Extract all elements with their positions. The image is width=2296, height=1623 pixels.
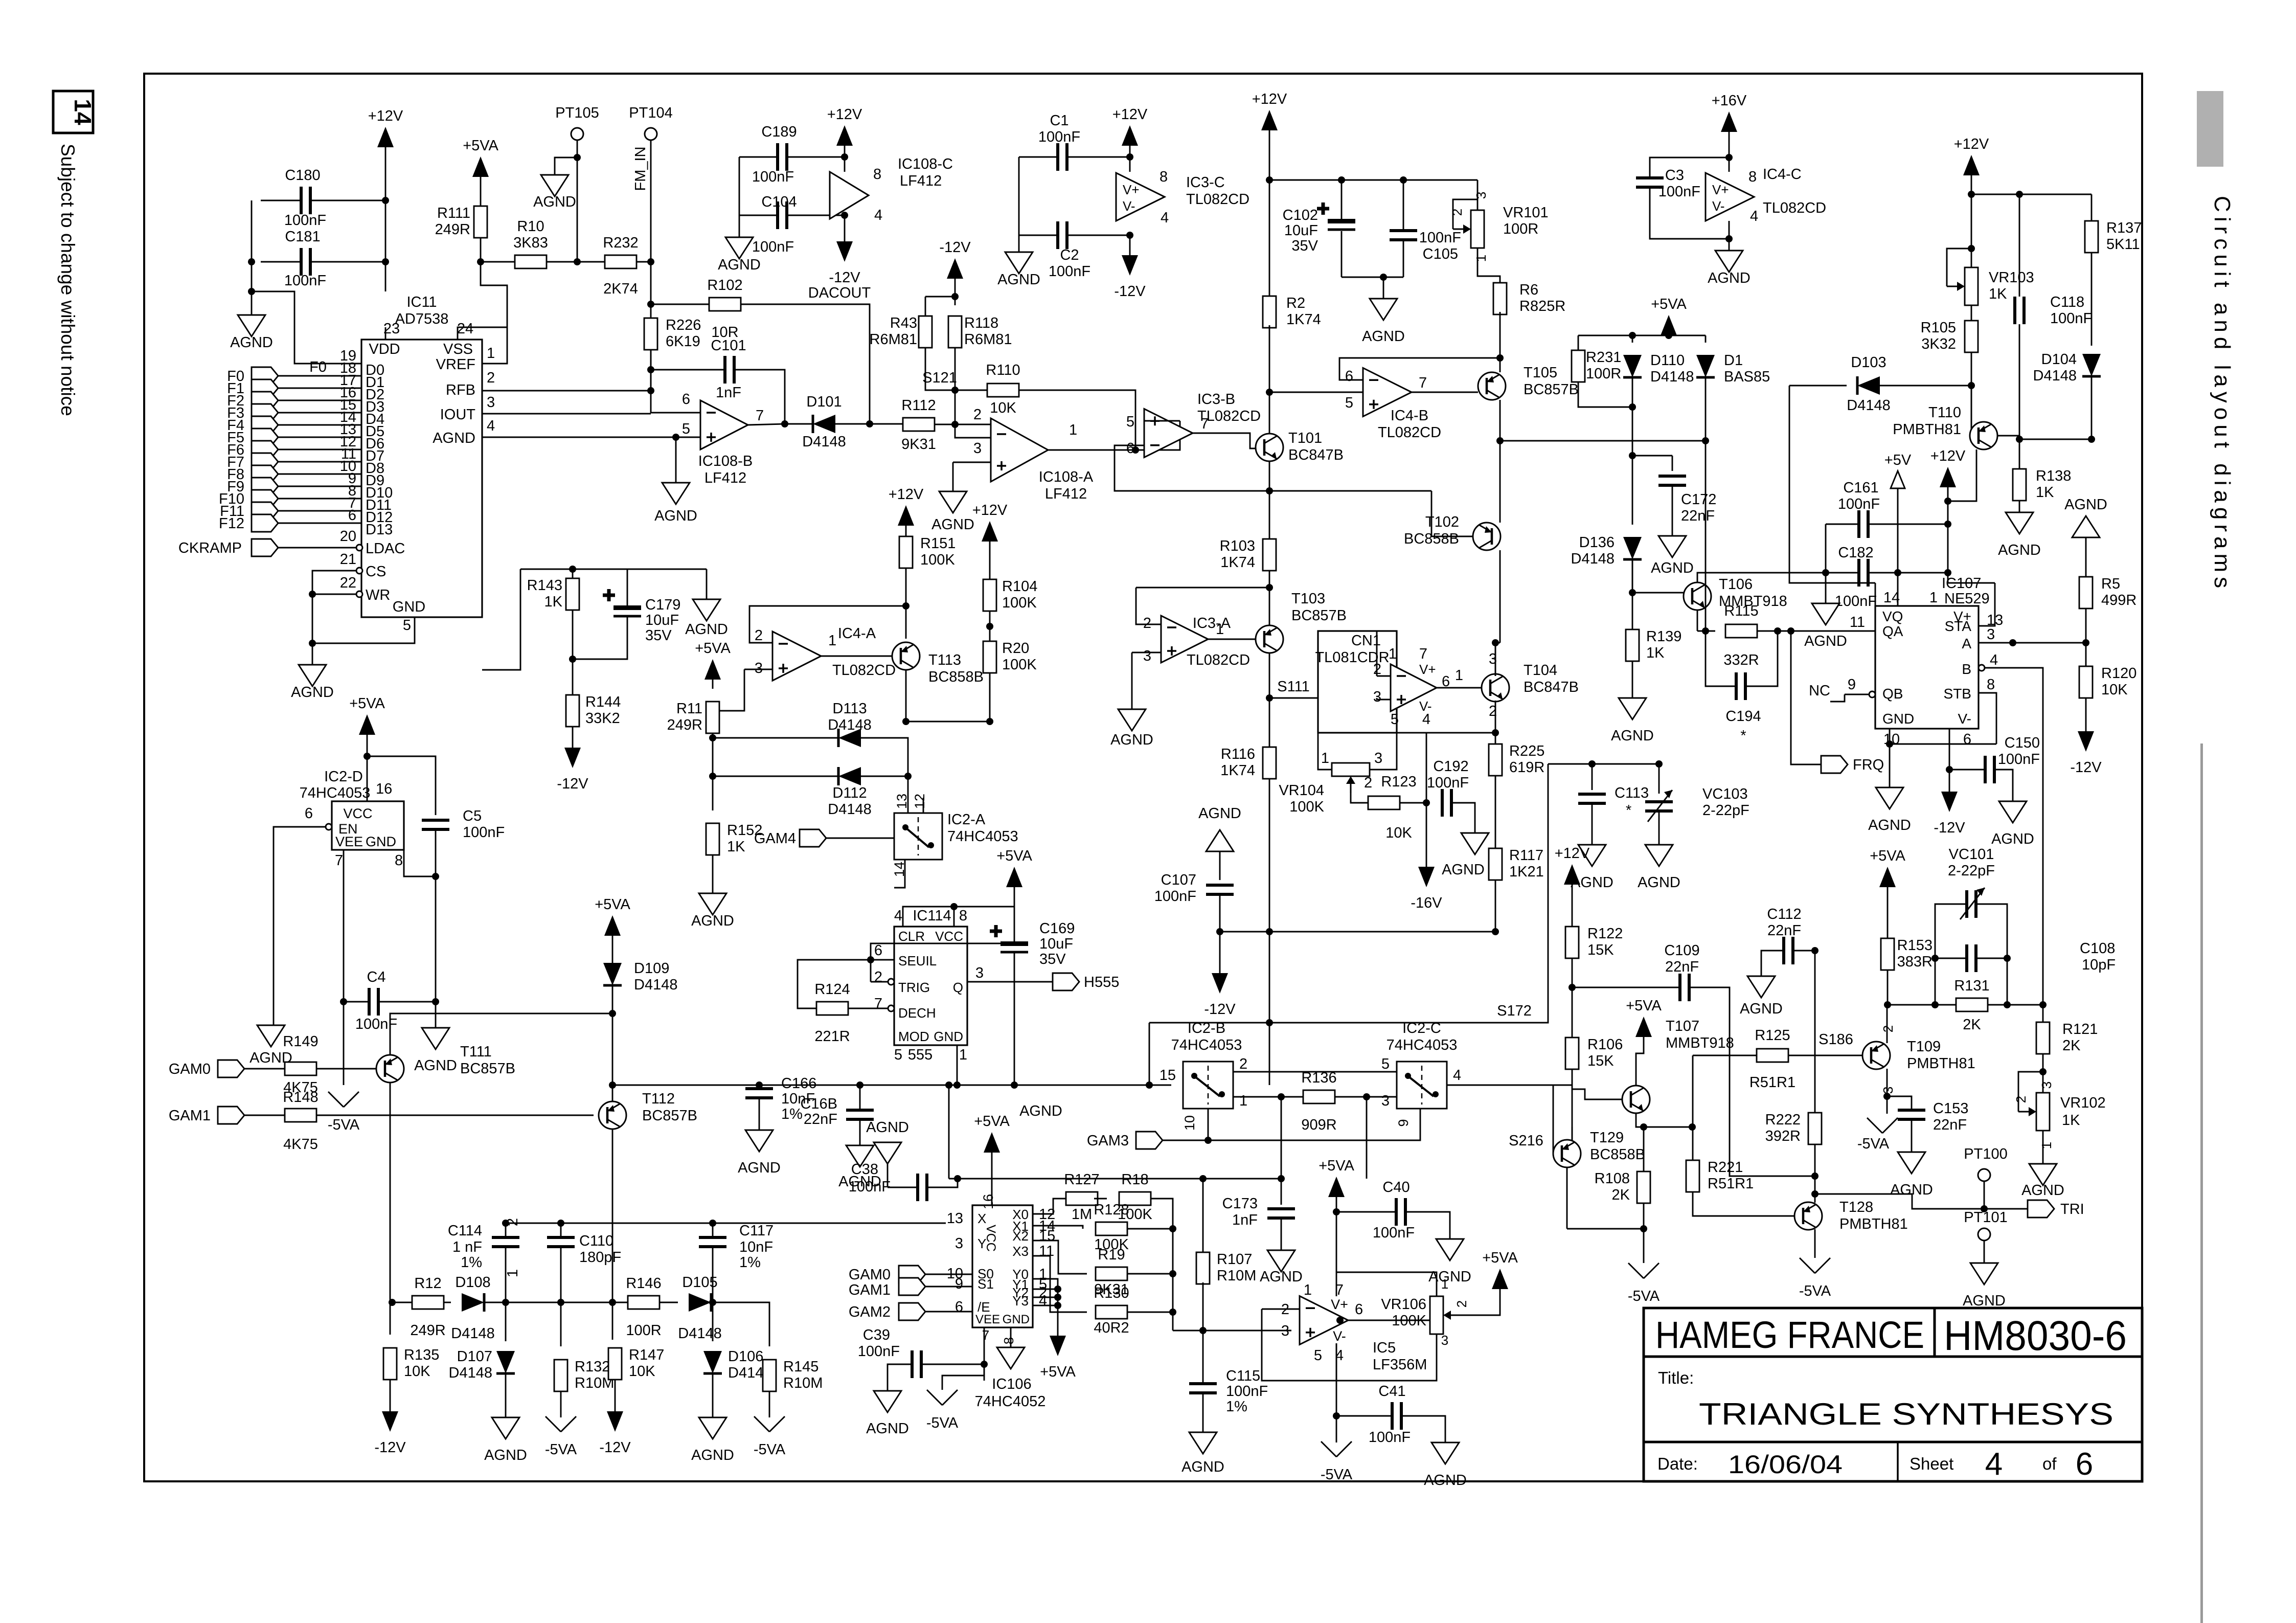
wire [1729, 132, 1730, 172]
ground AGND [2072, 516, 2100, 537]
wire [925, 296, 955, 298]
wire [1976, 958, 2007, 1005]
wire [367, 756, 436, 815]
svg-text:3: 3 [975, 965, 984, 981]
svg-text:100nF: 100nF [1154, 888, 1196, 905]
svg-text:V+: V+ [1331, 1297, 1348, 1312]
resistor R132 [554, 1360, 567, 1391]
junction [1886, 740, 1893, 748]
svg-text:249R: 249R [435, 221, 470, 238]
wire [507, 261, 516, 263]
resistor R110 [987, 384, 1019, 397]
capacitor C4 [369, 988, 378, 1016]
capacitor C117 [699, 1237, 726, 1247]
svg-text:IC114: IC114 [913, 908, 951, 924]
svg-text:PT104: PT104 [629, 105, 672, 121]
svg-text:D4148: D4148 [678, 1325, 721, 1342]
junction [1011, 1081, 1018, 1089]
svg-text:R122: R122 [1587, 926, 1623, 942]
svg-text:R232: R232 [603, 235, 638, 251]
wire [1208, 1109, 1209, 1140]
svg-text:+16V: +16V [1712, 93, 1747, 109]
svg-text:+5VA: +5VA [349, 695, 385, 712]
svg-text:33K2: 33K2 [585, 710, 620, 727]
wire [991, 1153, 993, 1205]
wire [1014, 887, 1015, 941]
svg-text:2: 2 [874, 969, 882, 985]
junction [647, 258, 654, 265]
wire [1412, 392, 1478, 393]
ground AGND [874, 1391, 901, 1412]
wire [1705, 335, 1707, 343]
wire [1477, 180, 1479, 210]
svg-text:S111: S111 [1277, 679, 1309, 695]
resistor R10 [515, 255, 547, 268]
node F2 [252, 392, 278, 409]
transistor T102 [1473, 523, 1501, 550]
svg-text:10K: 10K [1385, 825, 1412, 841]
wire [734, 370, 785, 424]
svg-text:AGND: AGND [484, 1447, 527, 1463]
svg-text:C189: C189 [761, 124, 797, 140]
svg-text:R120: R120 [2101, 665, 2136, 682]
svg-text:AGND: AGND [414, 1057, 457, 1074]
svg-text:CLR: CLR [898, 929, 925, 944]
ground AGND [874, 1142, 901, 1164]
wire [572, 569, 574, 578]
svg-text:AGND: AGND [1611, 728, 1654, 744]
svg-text:IC11: IC11 [406, 294, 437, 310]
wire [984, 1327, 985, 1364]
node CKRAMP [252, 539, 278, 556]
svg-text:+12V: +12V [889, 486, 924, 503]
wire [278, 424, 361, 426]
svg-text:7: 7 [874, 996, 882, 1012]
svg-text:R137: R137 [2106, 220, 2142, 236]
wire [482, 262, 651, 391]
wire [1632, 455, 1672, 457]
svg-text:R825R: R825R [1519, 298, 1565, 314]
wire [1845, 694, 1869, 695]
capacitor VC103 [1645, 802, 1673, 811]
ground AGND [745, 1130, 773, 1152]
junction [609, 1299, 616, 1306]
junction [1568, 984, 1576, 991]
svg-text:3: 3 [955, 1235, 963, 1252]
svg-text:R135: R135 [404, 1347, 439, 1363]
wire [343, 850, 345, 1002]
junction [1204, 1137, 1212, 1144]
supply +12V [1261, 110, 1278, 130]
ground AGND [699, 893, 726, 915]
capacitor C2 [1058, 221, 1067, 249]
junction [1787, 627, 1794, 635]
svg-text:D4148: D4148 [1847, 397, 1890, 414]
wire [1281, 1097, 1282, 1179]
wire [711, 1302, 769, 1346]
wire [1643, 1127, 1645, 1171]
resistor R121 [2036, 1022, 2050, 1054]
svg-text:AGND: AGND [1890, 1182, 1933, 1198]
svg-text:3: 3 [1441, 1333, 1448, 1348]
wire [1658, 811, 1660, 845]
svg-text:D103: D103 [1851, 354, 1886, 371]
wire [1144, 420, 1180, 422]
supply +12V [377, 127, 394, 147]
wire [1033, 1199, 1070, 1214]
svg-text:GND: GND [393, 599, 425, 615]
svg-text:AGND: AGND [1638, 874, 1680, 891]
svg-text:R143: R143 [527, 577, 562, 594]
IC IC114 555 [894, 927, 967, 1045]
IC IC107 NE529 [1875, 606, 1979, 729]
svg-text:C166: C166 [781, 1075, 816, 1092]
supply +12V [1122, 125, 1138, 146]
wire [1366, 1097, 1368, 1179]
svg-text:R123: R123 [1381, 774, 1416, 790]
svg-text:D108: D108 [455, 1274, 490, 1291]
junction [2016, 436, 2023, 443]
svg-text:6K19: 6K19 [666, 333, 700, 350]
svg-text:Q: Q [953, 980, 963, 995]
svg-text:AGND: AGND [1110, 732, 1153, 748]
capacitor C180 [301, 187, 310, 214]
wire [1499, 312, 1501, 372]
svg-text:C104: C104 [761, 194, 797, 210]
svg-text:3: 3 [1473, 192, 1489, 199]
svg-text:D136: D136 [1579, 534, 1615, 551]
svg-text:22nF: 22nF [1933, 1117, 1967, 1133]
wire [1789, 386, 1875, 583]
svg-text:C180: C180 [285, 167, 320, 184]
junction [2082, 639, 2089, 646]
junction [432, 998, 439, 1005]
svg-text:2K: 2K [1963, 1017, 1981, 1033]
svg-text:-5VA: -5VA [926, 1415, 959, 1431]
svg-text:10K: 10K [629, 1363, 655, 1380]
wire [1890, 743, 1996, 745]
wire [1567, 1228, 1644, 1230]
svg-text:383R: 383R [1897, 954, 1933, 970]
junction [502, 1220, 509, 1227]
svg-text:249R: 249R [667, 717, 702, 733]
junction [574, 258, 581, 265]
wire [955, 424, 991, 438]
svg-text:+5VA: +5VA [1482, 1250, 1518, 1266]
junction [1266, 487, 1273, 494]
wire [344, 1001, 369, 1003]
wire [261, 200, 385, 201]
wire [650, 140, 652, 262]
junction [647, 366, 654, 373]
wire [906, 673, 990, 722]
svg-text:TL082CD: TL082CD [832, 662, 896, 679]
svg-text:9K31: 9K31 [901, 436, 936, 453]
svg-text:2: 2 [1364, 775, 1372, 791]
wire [278, 437, 361, 438]
wire [2091, 194, 2093, 221]
svg-text:MMBT918: MMBT918 [1666, 1035, 1734, 1051]
node GAM0b [899, 1266, 925, 1283]
wire [2085, 608, 2087, 666]
svg-text:7: 7 [1419, 646, 1427, 662]
svg-text:V-: V- [1123, 198, 1135, 214]
svg-text:D4148: D4148 [1571, 551, 1615, 567]
svg-text:R116: R116 [1221, 746, 1255, 762]
wire [1136, 588, 1161, 624]
svg-text:R115: R115 [1724, 603, 1758, 619]
wire [484, 1302, 612, 1303]
resistor R115 [1725, 624, 1757, 638]
junction [951, 387, 959, 394]
supply -5VA [545, 1416, 561, 1432]
svg-text:R43: R43 [890, 315, 917, 331]
svg-text:100nF: 100nF [1658, 184, 1700, 200]
wire [713, 737, 838, 739]
junction [1266, 1019, 1273, 1026]
svg-text:+12V: +12V [1252, 91, 1287, 107]
svg-text:C115: C115 [1226, 1368, 1260, 1384]
junction [389, 1299, 396, 1306]
junction [1380, 274, 1387, 281]
junction [1054, 1302, 1061, 1309]
junction [432, 873, 439, 880]
svg-text:100nF: 100nF [752, 169, 794, 185]
title block row line 1 [1644, 1356, 2142, 1358]
svg-text:D4148: D4148 [634, 977, 677, 993]
resistor R108 [1637, 1171, 1650, 1203]
supply -5VA [1321, 1441, 1336, 1457]
wire [1566, 1167, 1568, 1229]
svg-text:1%: 1% [1226, 1399, 1247, 1415]
svg-text:909R: 909R [1301, 1117, 1336, 1133]
op-amp IC4-A [772, 632, 821, 681]
svg-text:T109: T109 [1907, 1039, 1941, 1055]
svg-text:3: 3 [1143, 648, 1151, 664]
svg-text:BAS85: BAS85 [1724, 369, 1770, 385]
wire [1572, 958, 1573, 1038]
wire [1136, 587, 1269, 589]
resistor R151 [899, 536, 913, 568]
svg-text:-5VA: -5VA [1857, 1136, 1890, 1152]
svg-text:100nF: 100nF [1226, 1383, 1268, 1400]
wire [1128, 1273, 1173, 1275]
capacitor C172 [1658, 476, 1686, 485]
svg-text:3: 3 [755, 660, 763, 677]
wire [1033, 1297, 1058, 1298]
svg-text:1: 1 [1929, 590, 1938, 606]
svg-text:VCC: VCC [343, 806, 372, 821]
transistor T105 [1478, 372, 1506, 400]
wire [1572, 885, 1573, 927]
page number box [53, 91, 93, 133]
node H555 [1053, 973, 1079, 990]
svg-text:20: 20 [340, 528, 356, 545]
wire [1632, 335, 1633, 343]
supply +5VA [1879, 867, 1896, 887]
capacitor C108 [1967, 944, 1976, 972]
svg-text:100nF: 100nF [1998, 751, 2040, 768]
op-amp IC5 [1300, 1296, 1348, 1345]
wire [1033, 1279, 1058, 1336]
svg-text:V-: V- [1419, 698, 1432, 714]
wire [612, 1085, 613, 1101]
svg-text:C169: C169 [1039, 920, 1075, 937]
svg-text:22nF: 22nF [1665, 959, 1699, 975]
wire [1262, 1309, 1336, 1381]
pin circle [356, 545, 362, 551]
node F10 [252, 490, 278, 507]
svg-text:AGND: AGND [1442, 862, 1485, 878]
svg-text:100R: 100R [1586, 366, 1621, 382]
svg-text:-5VA: -5VA [1628, 1288, 1660, 1304]
svg-text:22nF: 22nF [1767, 922, 1801, 939]
wire [482, 390, 651, 392]
svg-text:100nF: 100nF [355, 1016, 397, 1032]
wire [278, 510, 361, 512]
op-amp IC3-A [1161, 616, 1208, 663]
wire [1815, 1194, 2028, 1209]
svg-text:AGND: AGND [691, 1447, 734, 1463]
svg-text:VEE: VEE [975, 1313, 1000, 1326]
svg-text:-12V: -12V [1934, 820, 1965, 836]
resistor R118 [948, 316, 962, 348]
svg-text:22nF: 22nF [804, 1111, 837, 1128]
svg-text:D13: D13 [366, 522, 393, 538]
wire [312, 643, 313, 665]
svg-text:R51R1: R51R1 [1708, 1176, 1754, 1192]
svg-text:+12V: +12V [1954, 136, 1989, 152]
svg-text:AGND: AGND [1991, 831, 2034, 847]
svg-text:221R: 221R [814, 1028, 850, 1045]
supply +5VA [1661, 315, 1677, 335]
resistor R153 [1881, 938, 1894, 970]
svg-text:AGND: AGND [866, 1119, 909, 1136]
svg-text:R110: R110 [986, 362, 1020, 378]
junction [574, 154, 581, 161]
wire [1705, 377, 1707, 441]
svg-text:C150: C150 [2005, 735, 2040, 751]
wire [343, 1002, 345, 1085]
junction [1492, 639, 1499, 646]
svg-text:R144: R144 [585, 694, 621, 710]
svg-text:TL082CD: TL082CD [1187, 652, 1250, 668]
resistor R225 [1489, 744, 1502, 776]
svg-text:7: 7 [1200, 416, 1209, 432]
supply +5VA [1328, 1177, 1345, 1197]
svg-text:R107: R107 [1217, 1251, 1252, 1268]
wire [1377, 698, 1391, 700]
wire [1281, 1218, 1282, 1250]
wire [1426, 803, 1427, 867]
junction [2004, 955, 2011, 962]
wire [888, 1364, 912, 1391]
svg-text:3: 3 [1374, 750, 1382, 767]
svg-text:D4148: D4148 [449, 1365, 492, 1381]
svg-text:8: 8 [395, 852, 403, 869]
supply -12V [382, 1411, 398, 1432]
svg-text:1K: 1K [727, 839, 745, 855]
junction [569, 656, 576, 663]
svg-text:6: 6 [1126, 440, 1134, 457]
ground AGND [1118, 709, 1146, 731]
wire [312, 594, 356, 595]
wire [925, 1274, 972, 1275]
svg-text:10uF: 10uF [645, 612, 679, 628]
resistor R43 [919, 316, 932, 348]
svg-text:T107: T107 [1666, 1018, 1699, 1034]
capacitor VC101 [1967, 890, 1976, 918]
svg-text:5: 5 [1126, 414, 1134, 430]
svg-text:R124: R124 [814, 981, 850, 998]
wire [1281, 1179, 1282, 1205]
wire [712, 855, 714, 893]
wire [712, 1302, 714, 1341]
svg-text:11: 11 [1039, 1243, 1054, 1259]
diode D107 [496, 1351, 515, 1373]
ground AGND [492, 1417, 519, 1439]
svg-text:C105: C105 [1423, 246, 1458, 262]
wire [612, 985, 613, 1085]
svg-text:7: 7 [335, 852, 343, 869]
svg-text:1: 1 [959, 1047, 967, 1063]
wire [953, 462, 991, 463]
wire [261, 261, 385, 263]
svg-text:1: 1 [1069, 422, 1077, 438]
svg-text:Date:: Date: [1657, 1454, 1698, 1473]
junction [709, 1299, 716, 1306]
svg-text:D4148: D4148 [828, 717, 871, 733]
wire [787, 156, 845, 158]
wire [953, 907, 955, 927]
svg-text:24: 24 [457, 321, 473, 337]
wire [1269, 932, 1270, 1085]
junction [1496, 354, 1504, 362]
wire [844, 218, 846, 241]
svg-text:1K: 1K [544, 594, 563, 610]
supply -12V [1122, 255, 1138, 276]
resistor R137 [2085, 221, 2098, 253]
resistor R145 [763, 1360, 776, 1391]
svg-text:1%: 1% [739, 1254, 761, 1271]
svg-text:T106: T106 [1719, 576, 1753, 593]
svg-text:QB: QB [1882, 686, 1903, 702]
capacitor C5 [422, 820, 449, 829]
supply +5VA [1050, 1336, 1066, 1356]
wire [1269, 325, 1270, 392]
diode D106 [703, 1351, 722, 1373]
svg-text:C1: C1 [1050, 112, 1069, 129]
supply -16V [1418, 867, 1435, 887]
junction [647, 387, 654, 394]
wire [1636, 1037, 1644, 1086]
wire [612, 936, 613, 963]
ground AGND [1189, 1432, 1217, 1454]
svg-text:2: 2 [755, 627, 763, 644]
wire [1269, 490, 1431, 492]
junction [1492, 729, 1499, 736]
wire [2019, 194, 2020, 306]
svg-text:*: * [1626, 802, 1631, 819]
svg-text:AGND: AGND [291, 684, 334, 701]
svg-text:3: 3 [487, 394, 495, 411]
junction [2088, 436, 2095, 443]
junction [1169, 1270, 1176, 1277]
svg-text:AGND: AGND [1998, 542, 2041, 558]
svg-text:10uF: 10uF [1284, 222, 1318, 239]
wire [390, 1083, 391, 1302]
svg-text:2: 2 [1454, 1300, 1469, 1308]
